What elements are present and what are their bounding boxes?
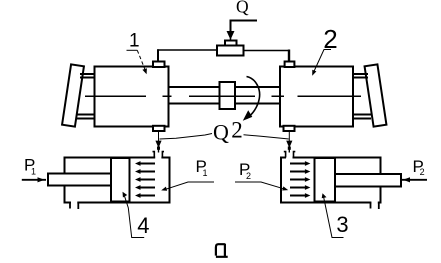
cylinder3 foot left [370, 203, 372, 209]
leader label1 [127, 49, 138, 51]
pipe block1 bottom to cylinder4 [158, 131, 160, 141]
left top mounting bars [80, 74, 95, 78]
cylinder4 foot right [77, 203, 79, 210]
port block2 top [285, 62, 295, 68]
cylinder3 boss walls [284, 152, 296, 158]
leader label3 [324, 197, 344, 238]
flow divider body [217, 46, 244, 56]
cylinder4 feet gap [71, 201, 77, 205]
arrow into cylinder3 [286, 141, 292, 148]
left tilted plate [62, 64, 84, 126]
cylinder4 foot left [69, 203, 71, 209]
center axis line [85, 95, 361, 97]
cylinder3 feet gap [371, 201, 377, 205]
cylinder4 boss gap [155, 156, 161, 160]
cylinder 4 body [65, 158, 170, 203]
svg-text:2: 2 [231, 117, 243, 142]
cylinder4 boss walls [153, 152, 165, 158]
left bottom mounting bars [77, 115, 95, 119]
arrow Q into divider [227, 32, 233, 39]
block 1 (left hydraulic motor) [95, 67, 169, 127]
svg-text:Q: Q [236, 0, 249, 17]
leader P2 inner [235, 182, 286, 189]
cylinder4 rod [48, 174, 112, 186]
cylinder3 piston [315, 158, 336, 202]
arrow P2 outer [401, 179, 427, 181]
pipe block2 bottom to cylinder3 [288, 131, 290, 141]
svg-text:Q: Q [213, 120, 229, 145]
svg-text:1: 1 [203, 168, 208, 178]
label a (figure letter) [216, 244, 228, 257]
pipe divider to block1 [157, 49, 217, 51]
flow divider top boss [225, 41, 237, 46]
block 2 (right hydraulic motor) [280, 67, 353, 127]
cylinder3 foot right [378, 203, 380, 210]
svg-text:4: 4 [137, 213, 149, 238]
port block1 bottom [153, 126, 165, 131]
svg-text:2: 2 [420, 167, 425, 177]
cylinder3 boss gap [286, 156, 293, 160]
leader P1 inner [164, 182, 214, 190]
svg-text:1: 1 [129, 31, 140, 52]
svg-text:2: 2 [246, 171, 251, 181]
right bottom mounting bars [354, 115, 372, 119]
cylinder4 piston [111, 158, 130, 202]
pipe divider to block2 [244, 50, 291, 52]
rotation arrow arc [247, 77, 260, 119]
arrow P1 outer [22, 179, 46, 181]
port block1 top [153, 62, 165, 68]
coupling [220, 82, 236, 109]
wire Q inlet vertical [230, 20, 232, 32]
leader Q2 right [244, 135, 289, 139]
cylinder 3 body [281, 158, 381, 203]
svg-text:1: 1 [31, 167, 36, 177]
leader Q2 left [160, 134, 213, 140]
leader label2 [313, 50, 331, 74]
cylinder3 rod [335, 174, 401, 187]
cylinder3 chamber arrows [290, 164, 306, 196]
leader label4 [124, 195, 144, 238]
right tilted plate [365, 64, 387, 126]
shaft top line [169, 86, 281, 88]
cylinder4 chamber arrows [140, 164, 156, 196]
wire Q inlet horizontal [230, 20, 258, 22]
port block2 bottom [284, 126, 295, 131]
shaft bottom line [169, 103, 281, 105]
right top mounting bars [354, 74, 369, 78]
arrow into cylinder4 [155, 141, 161, 148]
svg-text:3: 3 [336, 212, 348, 237]
